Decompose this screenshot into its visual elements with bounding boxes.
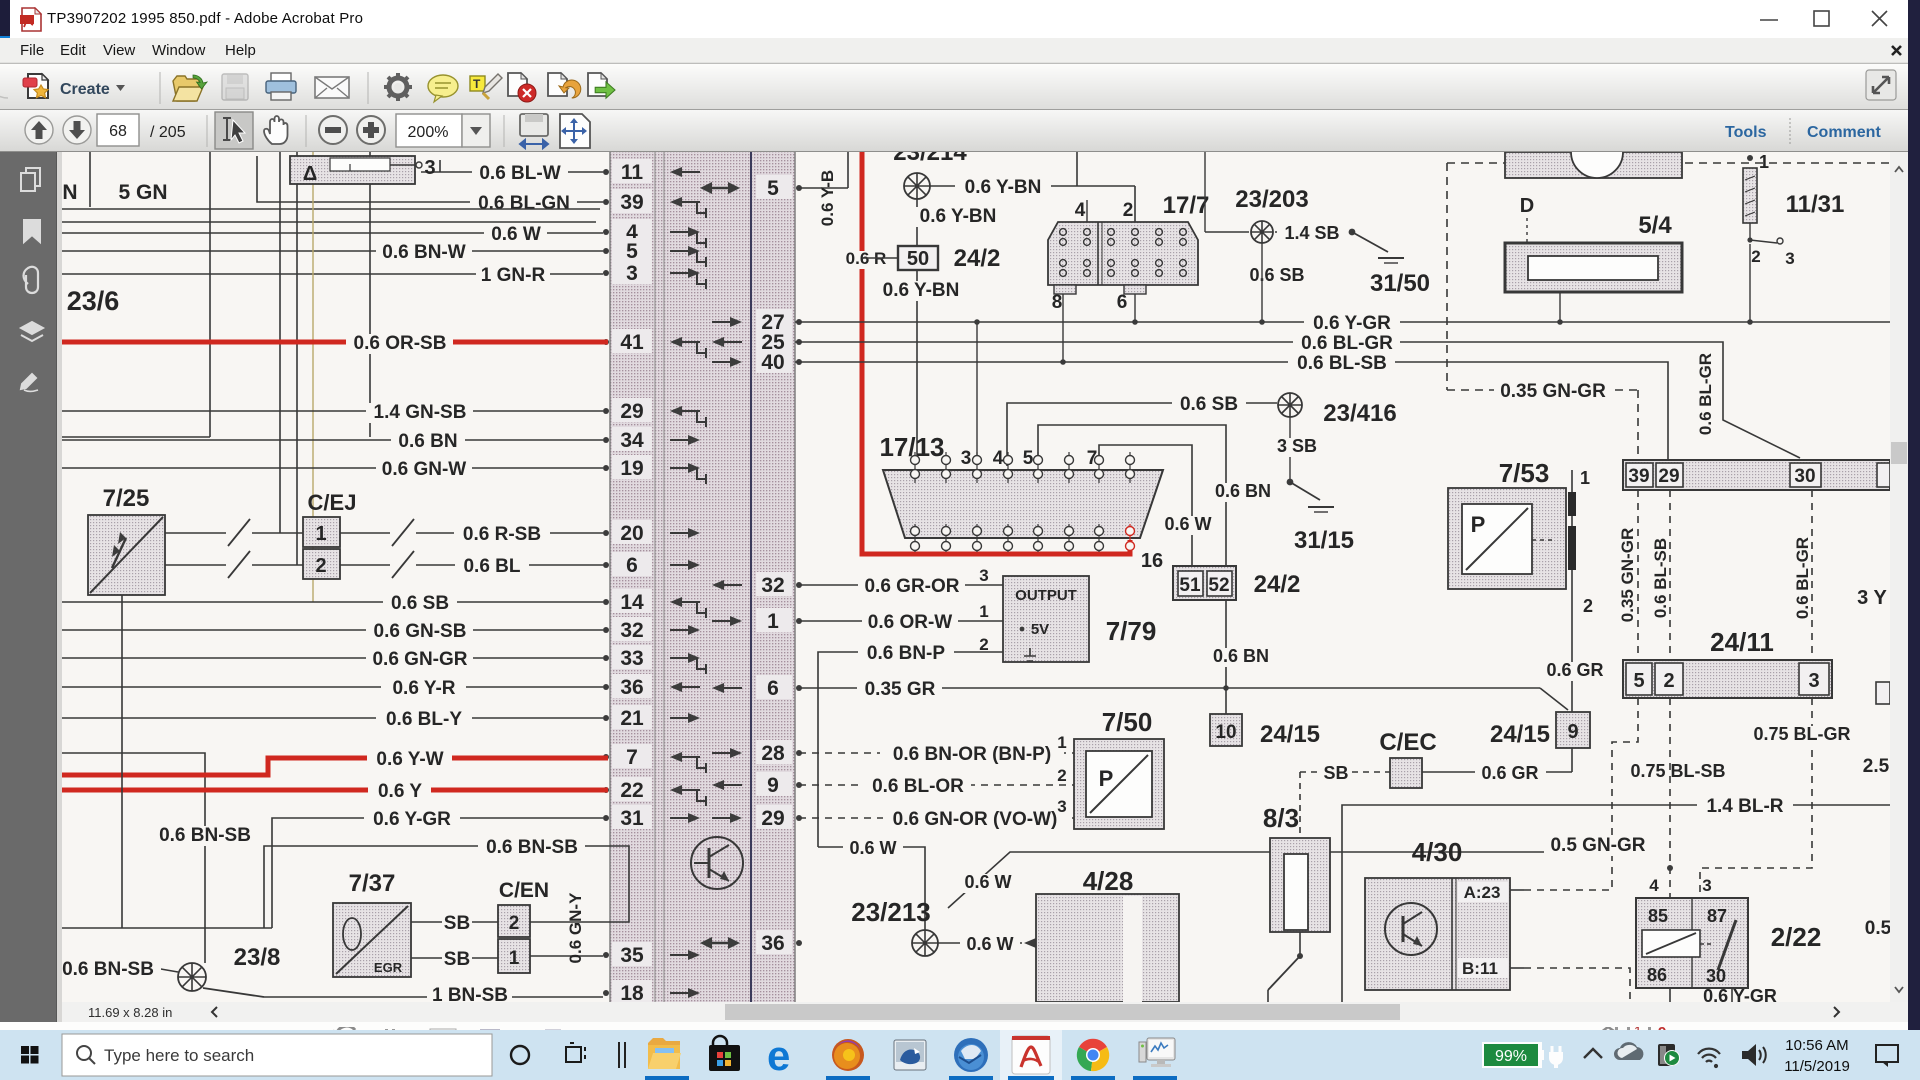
wire 0.6 Y (red) to pin 22: [62, 781, 608, 802]
svg-text:200%: 200%: [408, 124, 449, 141]
svg-text:0.6 BN: 0.6 BN: [1215, 481, 1271, 501]
wire 0.6 BN-W to pin 5: [62, 242, 603, 263]
svg-text:17/7: 17/7: [1163, 192, 1210, 219]
svg-text:11: 11: [621, 161, 644, 184]
wire 0.6 W to 4/28: [938, 934, 1063, 956]
wire 0.6 GR into terminal 9: [1540, 660, 1611, 710]
wire 5 GN: [62, 152, 210, 437]
strip pin 34: [603, 427, 700, 452]
svg-text:0.6 Y-GR: 0.6 Y-GR: [1313, 313, 1391, 334]
terminal 10 / 24/15: [1206, 600, 1320, 748]
svg-text:7: 7: [1087, 448, 1098, 469]
svg-text:0.6 BL-SB: 0.6 BL-SB: [1651, 538, 1670, 618]
terminal 50 / 24/2: [837, 245, 1000, 272]
strip pin 36: [603, 674, 700, 699]
wire 0.6 GN-Y C/EN1 to pin 35: [530, 892, 603, 964]
svg-text:0.6 BN: 0.6 BN: [398, 431, 457, 452]
strip pin 31: [603, 805, 700, 830]
wire 17/13 pin7 0.6 W to 51: [1099, 445, 1218, 566]
strip pin 29: [603, 398, 706, 427]
svg-text:3 Y: 3 Y: [1857, 587, 1887, 609]
svg-text:10:56 AM: 10:56 AM: [1785, 1037, 1848, 1054]
svg-text:0.6 BN-SB: 0.6 BN-SB: [159, 825, 251, 846]
svg-text:3 SB: 3 SB: [1277, 436, 1317, 456]
svg-text:24/11: 24/11: [1710, 627, 1774, 657]
svg-text:5 GN: 5 GN: [118, 181, 167, 204]
fuse 11/31: [1743, 152, 1844, 322]
svg-text:14: 14: [620, 591, 644, 614]
svg-text:4: 4: [993, 448, 1004, 469]
wire 0.5 GN-GR branch: [948, 852, 1545, 908]
svg-text:1: 1: [315, 523, 326, 545]
module 7/53: [1448, 458, 1566, 589]
svg-text:5: 5: [1633, 670, 1644, 692]
svg-text:0.6 GN-OR (VO-W): 0.6 GN-OR (VO-W): [893, 809, 1058, 830]
svg-text:0.5: 0.5: [1865, 918, 1890, 939]
connector bar 24/11: [1623, 627, 1832, 698]
svg-text:T: T: [473, 77, 481, 91]
splice with 0.6 Y-BN wire: [904, 152, 1135, 199]
wire 17/13 pin5 0.6 BN to 52: [1038, 425, 1279, 566]
svg-text:24/15: 24/15: [1490, 721, 1550, 748]
svg-text:22: 22: [620, 779, 643, 802]
svg-text:0.6 BN-SB: 0.6 BN-SB: [62, 959, 154, 980]
svg-text:35: 35: [620, 944, 644, 967]
wire 0.6 SB to pin 14: [62, 593, 603, 614]
svg-text:0.6 Y-BN: 0.6 Y-BN: [965, 177, 1042, 198]
wire 1 BN-SB to pin 18: [264, 985, 603, 1006]
wire C/EJ pin1 0.6 R-SB to pin 20: [340, 519, 603, 546]
svg-text:2/22: 2/22: [1771, 922, 1822, 952]
label 0.5 right edge: [1865, 918, 1892, 939]
wire into 17/7 pin 2: [1134, 186, 1136, 222]
svg-text:33: 33: [620, 647, 643, 670]
svg-text:0.75 BL-GR: 0.75 BL-GR: [1753, 724, 1850, 744]
wire 7/37 SB to C/EN 2: [411, 913, 498, 934]
wire 0.6 Y-GR to pin 31: [272, 809, 603, 928]
riser 17/13 pin3: [974, 319, 980, 455]
svg-text:52: 52: [1208, 575, 1229, 596]
wire 25 / 0.6 BL-GR: [795, 333, 1800, 458]
component 8/3: [1263, 803, 1330, 1002]
svg-text:11/5/2019: 11/5/2019: [1784, 1058, 1850, 1075]
svg-text:2.5: 2.5: [1863, 756, 1890, 777]
svg-text:0.6 BL: 0.6 BL: [463, 556, 520, 577]
wire 50 to 17/13: [873, 270, 969, 462]
dashed SB drop to 8/3: [1299, 772, 1301, 838]
strip pin 18: [603, 980, 700, 1005]
svg-text:SB: SB: [444, 913, 470, 934]
svg-text:4/30: 4/30: [1412, 837, 1463, 867]
svg-text:41: 41: [620, 331, 644, 354]
label 0.5 GN-GR: [1544, 835, 1651, 856]
svg-text:0.6 BN-W: 0.6 BN-W: [382, 242, 465, 263]
stub component right edge: [1876, 682, 1890, 704]
svg-text:0.6 SB: 0.6 SB: [1180, 394, 1238, 415]
svg-text:Comment: Comment: [1807, 124, 1881, 141]
wire 1.4 BL-R: [1342, 796, 1890, 1002]
label 2.5 right edge: [1863, 756, 1890, 777]
svg-text:0.6 W: 0.6 W: [966, 934, 1013, 954]
svg-text:23/416: 23/416: [1323, 400, 1396, 427]
svg-text:2: 2: [315, 555, 326, 577]
svg-text:29: 29: [1658, 466, 1679, 487]
svg-text:7/37: 7/37: [349, 870, 396, 897]
svg-text:4: 4: [1075, 200, 1086, 221]
splice 23/213: [851, 897, 938, 956]
wire (unlabeled) upper-left: [62, 208, 600, 210]
svg-text:Type here to search: Type here to search: [104, 1046, 254, 1065]
svg-text:7/53: 7/53: [1499, 458, 1550, 488]
dashed harness boundary: [1447, 163, 1890, 460]
wire 0.6 BN to pin 34: [62, 431, 603, 452]
wire 0.6 Y-W (red) to pin 7: [62, 749, 608, 775]
wire 0.6 OR-W to 7/79 pin1: [799, 602, 1003, 633]
svg-text:1.4 GN-SB: 1.4 GN-SB: [374, 402, 467, 423]
svg-text:3: 3: [626, 262, 638, 285]
component 4/30 ignition module: [1365, 837, 1524, 990]
svg-text:23/6: 23/6: [67, 286, 120, 316]
svg-text:23/214: 23/214: [893, 152, 967, 166]
strip pin 4: [603, 219, 706, 248]
label 3 Y right edge: [1857, 587, 1887, 609]
terminals 51 52 / 24/2: [1173, 566, 1300, 600]
svg-text:3: 3: [979, 566, 988, 585]
svg-text:0.6 BL-GN: 0.6 BL-GN: [478, 193, 570, 214]
wire 0.6 W splice feed: [818, 838, 925, 930]
svg-text:29: 29: [761, 807, 784, 830]
svg-text:0.6 W: 0.6 W: [491, 224, 541, 245]
strip pin 27 (right): [712, 309, 802, 334]
svg-text:0.6 BL-GR: 0.6 BL-GR: [1301, 333, 1393, 354]
svg-text:3: 3: [1057, 797, 1066, 816]
wire 0.6 BL-W to pin 11: [421, 160, 603, 184]
svg-text:28: 28: [761, 742, 785, 765]
strip pin 6: [603, 552, 700, 577]
svg-text:1.4 BL-R: 1.4 BL-R: [1706, 796, 1783, 817]
svg-text:0.6 Y-GR: 0.6 Y-GR: [1703, 986, 1777, 1002]
svg-text:0.6 GR-OR: 0.6 GR-OR: [864, 576, 959, 597]
strip pin 22: [603, 777, 706, 806]
svg-text:9: 9: [1567, 721, 1578, 743]
svg-text:0.6 GR: 0.6 GR: [1481, 763, 1538, 783]
component 7/25: [88, 485, 165, 595]
svg-text:0.6 GN-SB: 0.6 GN-SB: [374, 621, 467, 642]
strip pin 29 (right): [712, 805, 802, 830]
dashed 0.6 BL-SB to 24/11 pin2: [1651, 490, 1670, 660]
svg-text:B:11: B:11: [1462, 959, 1498, 978]
component 5/4: [1505, 126, 1682, 322]
svg-text:9: 9: [767, 774, 779, 797]
svg-text:6: 6: [626, 554, 638, 577]
strip pin 5: [603, 238, 706, 267]
svg-text:50: 50: [907, 248, 929, 270]
strip pin 14: [603, 589, 706, 618]
svg-text:0.6 Y-BN: 0.6 Y-BN: [883, 280, 960, 301]
svg-text:1: 1: [1580, 468, 1590, 488]
wire 7/25 to C/EJ pin1 with switch: [165, 519, 303, 546]
svg-text:1: 1: [979, 602, 988, 621]
svg-text:C/EN: C/EN: [499, 879, 549, 902]
wire 7/25 to C/EJ pin2 with switch: [165, 551, 303, 578]
wire 0.6 BL-Y to pin 21: [62, 709, 603, 730]
wire 0.6 SB to splice 23/416: [1007, 394, 1277, 466]
strip pin 9 (right): [712, 772, 802, 797]
connector C/EN: [498, 879, 549, 973]
svg-text:0.6 BL-Y: 0.6 BL-Y: [386, 709, 462, 730]
wire 0.35 GR: [799, 679, 1540, 700]
connector bar 39/29/30: [1623, 460, 1890, 490]
svg-text:87: 87: [1707, 906, 1727, 926]
red power wire to 17/13 pin 16: [862, 152, 1130, 554]
svg-text:0.6 BL-GR: 0.6 BL-GR: [1696, 353, 1715, 435]
component 7/37 EGR valve: [333, 870, 411, 977]
svg-text:32: 32: [761, 574, 784, 597]
strip pin 20: [603, 520, 700, 545]
svg-text:29: 29: [620, 400, 643, 423]
svg-text:24/2: 24/2: [1254, 571, 1301, 598]
wire 1 GN-R to pin 3: [62, 265, 603, 286]
svg-text:0.6 Y-R: 0.6 Y-R: [392, 678, 455, 699]
svg-text:0.6 BN-OR (BN-P): 0.6 BN-OR (BN-P): [893, 744, 1051, 765]
wire 0.6 BL-OR to 7/50 pin2: [799, 766, 1074, 797]
svg-text:0.6 BN: 0.6 BN: [1213, 646, 1269, 666]
strip pin 32 (right): [712, 572, 802, 597]
wire 0.6 W to pin 4: [62, 224, 603, 245]
svg-text:6: 6: [767, 677, 779, 700]
svg-text:7: 7: [626, 746, 638, 769]
wire 0.6 BN-SB to C/EN: [264, 837, 629, 928]
svg-text:1 BN-SB: 1 BN-SB: [432, 985, 508, 1002]
dashed B:11 lead: [1524, 968, 1630, 1002]
svg-text:N: N: [62, 181, 77, 204]
svg-text:C/EJ: C/EJ: [308, 490, 357, 515]
wire 1.4 GN-SB to pin 29: [62, 402, 603, 423]
svg-text:2: 2: [1751, 247, 1760, 266]
svg-text:Create: Create: [60, 81, 110, 98]
svg-text:2: 2: [1123, 200, 1134, 221]
strip pin 11: [603, 159, 700, 184]
connector strip (central bus): [610, 152, 795, 1002]
svg-text:0.6 Y-BN: 0.6 Y-BN: [920, 206, 997, 227]
svg-text:0.5 GN-GR: 0.5 GN-GR: [1550, 835, 1645, 856]
svg-text:16: 16: [1141, 550, 1163, 572]
label 0.6 Y-GR bottom (clipped): [1703, 986, 1777, 1006]
svg-text:39: 39: [620, 191, 643, 214]
strip pin 7: [603, 744, 706, 773]
strip pin 40 (right): [712, 349, 802, 374]
svg-text:D: D: [1520, 195, 1534, 217]
wire 0.6 GN-SB to pin 32: [62, 621, 603, 642]
svg-text:e: e: [767, 1032, 790, 1079]
component 4/28: [1036, 866, 1179, 1002]
wire 0.6 BL-GN to pin 39: [257, 156, 603, 214]
svg-text:24/15: 24/15: [1260, 721, 1320, 748]
svg-text:1: 1: [1057, 733, 1066, 752]
svg-text:0.6 BN-SB: 0.6 BN-SB: [486, 837, 578, 858]
dashed 0.35 GN-GR to 24/11 pin5: [1618, 490, 1638, 660]
svg-text:34: 34: [620, 429, 644, 452]
svg-text:0.6 GR: 0.6 GR: [1546, 660, 1603, 680]
svg-text:4/28: 4/28: [1083, 866, 1134, 896]
svg-text:24/2: 24/2: [954, 245, 1001, 272]
svg-text:0.6 Y: 0.6 Y: [378, 781, 422, 802]
wire 40 / 0.6 BL-SB: [795, 353, 1668, 460]
svg-text:5: 5: [1023, 448, 1034, 469]
svg-text:0.6 Y-GR: 0.6 Y-GR: [373, 809, 451, 830]
svg-text:5V: 5V: [1031, 621, 1049, 638]
svg-text:OUTPUT: OUTPUT: [1015, 587, 1077, 604]
svg-text:5: 5: [767, 177, 779, 200]
svg-text:/ 205: / 205: [150, 124, 186, 141]
svg-text:2: 2: [509, 913, 520, 934]
svg-text:0.6 W: 0.6 W: [849, 838, 896, 858]
wire 0.6 GN-W to pin 19: [62, 459, 603, 480]
svg-text:23/203: 23/203: [1235, 186, 1308, 213]
svg-text:0.6 GN-GR: 0.6 GN-GR: [372, 649, 467, 670]
wire 27 / 0.6 Y-GR: [795, 313, 1890, 334]
label 23/214 (clipped): [893, 139, 967, 166]
svg-text:3: 3: [1808, 670, 1819, 692]
svg-text:1.4 SB: 1.4 SB: [1284, 223, 1339, 243]
strip pin 21: [603, 705, 700, 730]
wire 17/7 pin6 down: [1132, 294, 1138, 325]
wire to vertical 0.6 BN-SB: [62, 753, 258, 963]
connector 17/7: [1048, 192, 1209, 313]
wire (unlabeled) upper-left 2: [62, 221, 596, 223]
svg-text:0.6 BL-SB: 0.6 BL-SB: [1297, 353, 1387, 374]
svg-text:C/EC: C/EC: [1379, 729, 1436, 756]
strip pin 32: [603, 617, 700, 642]
svg-text:30: 30: [1706, 966, 1726, 986]
svg-text:0.35 GN-GR: 0.35 GN-GR: [1500, 381, 1606, 402]
svg-text:7/50: 7/50: [1102, 707, 1153, 737]
wire 0.6 GN-GR to pin 33: [62, 649, 603, 670]
svg-text:36: 36: [761, 932, 784, 955]
svg-text:2: 2: [1663, 670, 1674, 692]
svg-text:SB: SB: [1323, 763, 1348, 783]
svg-text:40: 40: [761, 351, 784, 374]
svg-text:31/15: 31/15: [1294, 527, 1354, 554]
terminal 9 / 24/15: [1490, 712, 1590, 748]
svg-text:2: 2: [1057, 766, 1066, 785]
svg-text:18: 18: [620, 982, 644, 1002]
strip pin 33: [603, 645, 706, 674]
wire 0.6 GR-OR to 7/79 pin3: [799, 566, 1003, 597]
svg-text:8/3: 8/3: [1263, 803, 1299, 833]
wire 17/7 pin8 down: [1060, 294, 1066, 365]
wire 7/37 SB to C/EN 1: [411, 949, 498, 970]
wire bottom-left bus: [62, 595, 272, 928]
svg-text:0.6 W: 0.6 W: [1164, 514, 1211, 534]
relay 2/22: [1636, 876, 1821, 1002]
svg-text:86: 86: [1647, 965, 1667, 985]
svg-text:0.6 GN-Y: 0.6 GN-Y: [566, 892, 585, 964]
svg-text:0.6 SB: 0.6 SB: [1249, 265, 1304, 285]
svg-text:3: 3: [1702, 876, 1711, 895]
dashed 0.75 BL-SB to 4/30 A:23: [1524, 698, 1734, 890]
svg-text:0.6 OR-W: 0.6 OR-W: [868, 612, 953, 633]
svg-text:85: 85: [1648, 906, 1668, 926]
svg-text:Δ: Δ: [303, 163, 317, 185]
svg-text:0.75 BL-SB: 0.75 BL-SB: [1630, 761, 1725, 781]
svg-text:1: 1: [767, 610, 779, 633]
svg-text:A:23: A:23: [1464, 883, 1501, 902]
strip pin 3: [603, 260, 706, 289]
component 23/6 label: [67, 286, 120, 316]
strip pin 6 (right): [712, 675, 802, 700]
svg-text:6: 6: [1117, 292, 1128, 313]
wire 0.6 Y-R to pin 36: [62, 678, 603, 699]
connector C/EC with SB lead: [1300, 729, 1572, 788]
svg-text:0.6 OR-SB: 0.6 OR-SB: [354, 333, 447, 354]
svg-text:3: 3: [961, 448, 972, 469]
wire C/EJ pin2 0.6 BL to pin 6: [340, 551, 603, 578]
svg-text:5/4: 5/4: [1638, 212, 1672, 239]
svg-text:1: 1: [509, 948, 520, 969]
dashed 0.6 BL-GR to 24/11 pin3: [1793, 490, 1812, 660]
svg-text:5: 5: [626, 240, 638, 263]
svg-text:23/8: 23/8: [234, 944, 281, 971]
wire risers from top edge: [280, 152, 370, 602]
svg-text:7/25: 7/25: [103, 485, 150, 512]
strip pin 28 (right): [712, 740, 802, 765]
svg-text:7/79: 7/79: [1106, 616, 1157, 646]
dashed 0.75 BL-GR / relay feed: [1667, 698, 1858, 898]
svg-text:1 GN-R: 1 GN-R: [481, 265, 546, 286]
svg-text:0.6 SB: 0.6 SB: [391, 593, 449, 614]
strip pin 19: [603, 455, 706, 484]
svg-text:99%: 99%: [1495, 1048, 1527, 1065]
node N: [62, 152, 90, 207]
svg-text:0.6 W: 0.6 W: [964, 872, 1011, 892]
svg-text:68: 68: [109, 123, 127, 140]
connector 17/13: [879, 432, 1163, 572]
svg-text:0.6 BN-P: 0.6 BN-P: [867, 643, 945, 664]
component bulb/sensor above (partial): [290, 156, 436, 185]
svg-text:EGR: EGR: [374, 960, 403, 975]
svg-text:21: 21: [620, 707, 644, 730]
strip pin 36 (right): [700, 930, 802, 955]
strip pin 35: [603, 942, 700, 967]
svg-text:0.35 GR: 0.35 GR: [865, 679, 936, 700]
ground splice 23/8: [54, 944, 280, 997]
svg-text:2: 2: [1583, 596, 1593, 616]
lamp 23/203 with 1.4 SB switch to ground 31/50: [1205, 152, 1430, 325]
strip pin 39: [603, 189, 706, 218]
wire 0.6 BN-OR (BN-P) to 7/50 pin1: [799, 733, 1074, 765]
svg-text:0.6 Y-B: 0.6 Y-B: [818, 170, 837, 226]
svg-text:31/50: 31/50: [1370, 270, 1430, 297]
svg-text:0.6 BL-GR: 0.6 BL-GR: [1793, 537, 1812, 619]
strip pin 41: [603, 329, 706, 358]
svg-text:2: 2: [979, 635, 988, 654]
svg-text:0.6 BL-OR: 0.6 BL-OR: [872, 776, 964, 797]
transistor symbol in strip: [691, 837, 743, 889]
svg-text:11/31: 11/31: [1786, 191, 1845, 218]
svg-text:0.6 GN-W: 0.6 GN-W: [382, 459, 467, 480]
svg-text:36: 36: [620, 676, 643, 699]
wire right-5 and 0.6 Y-B riser: [799, 152, 848, 226]
wire 0.6 GN-OR (VO-W) to 7/50 pin3: [799, 797, 1074, 830]
strip pin 25 (right): [712, 329, 802, 354]
svg-text:30: 30: [1794, 466, 1815, 487]
strip pin 5 (right): [700, 175, 802, 200]
svg-text:0.6 R-SB: 0.6 R-SB: [463, 524, 541, 545]
svg-text:0.6 BL-W: 0.6 BL-W: [479, 163, 560, 184]
svg-text:4: 4: [1649, 876, 1659, 895]
connector C/EJ: [303, 490, 356, 579]
